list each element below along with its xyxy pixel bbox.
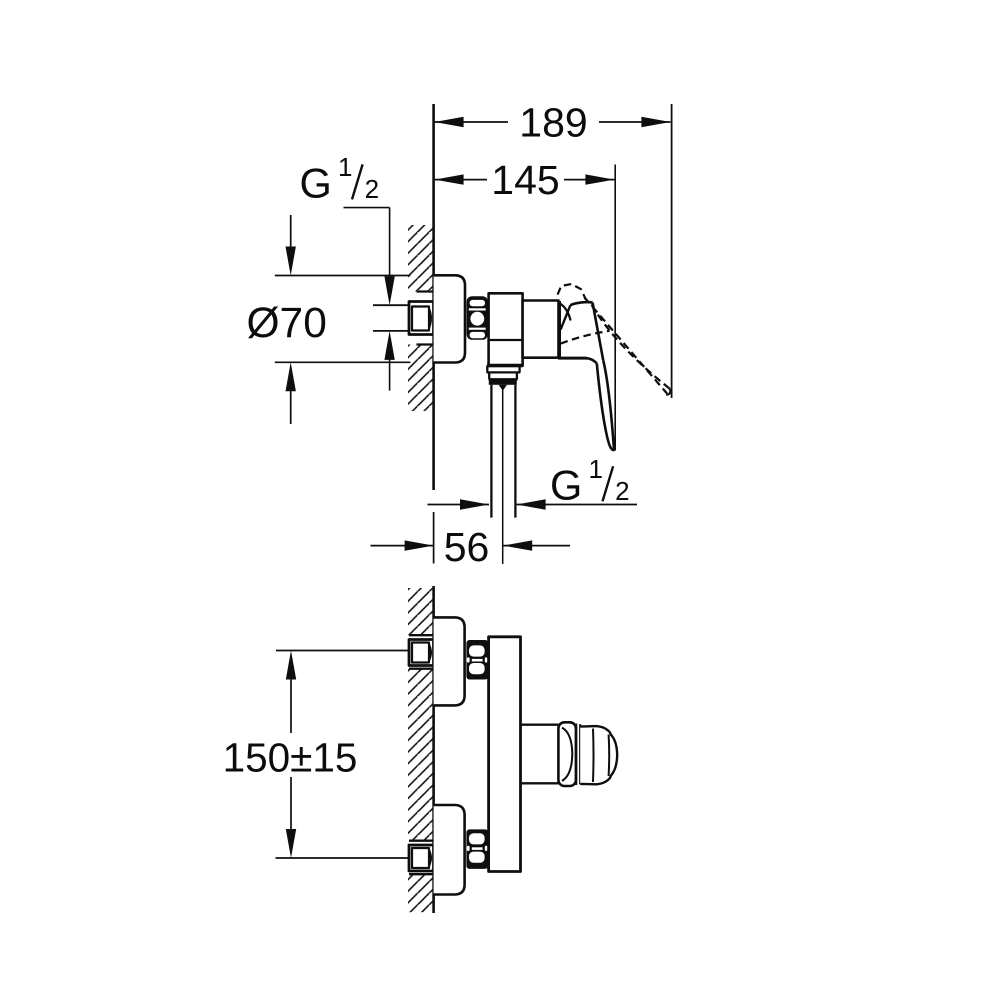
dim 189 line <box>435 121 671 123</box>
svg-text:2: 2 <box>615 476 629 506</box>
lower square nut chamfer arc <box>429 850 431 866</box>
dim 145 left arrow <box>435 174 464 184</box>
label G1/2 top leader vertical upper + arrow <box>389 208 391 280</box>
dim D70 lower arrow line <box>290 391 292 424</box>
dome arc <box>560 303 571 320</box>
dim 150 lower extension line <box>276 857 409 859</box>
wall hatching band 2 <box>408 669 434 841</box>
dim 145 extension line <box>614 165 616 451</box>
outlet step 1 <box>487 366 521 373</box>
escutcheon (wall rosette) side view <box>434 275 465 362</box>
spout bottom line <box>521 782 559 784</box>
svg-text:G: G <box>550 461 582 508</box>
handle neck left edge <box>561 305 571 329</box>
svg-text:Ø70: Ø70 <box>247 300 327 347</box>
label G1/2 mid: fraction slash <box>603 466 614 501</box>
G1/2 inlet tick lower <box>373 330 409 332</box>
knob cap mid line <box>592 729 595 782</box>
label G1/2 top leader vertical lower + arrow <box>389 356 391 391</box>
knob flange <box>558 722 576 786</box>
lower square union nut <box>409 845 434 871</box>
dashed lever tip arc <box>666 389 670 395</box>
label G1/2 top: fraction slash <box>352 164 363 199</box>
dim 150 down arrow <box>286 829 296 858</box>
svg-text:150±15: 150±15 <box>223 735 358 781</box>
hose drop tip <box>499 385 507 391</box>
dim 189 right arrow <box>641 117 670 127</box>
dim 150 upper extension line <box>276 650 409 652</box>
handle lever right edge with tip <box>603 360 614 450</box>
knob cap face line <box>608 735 611 776</box>
wall line bottom figure <box>432 586 435 913</box>
dim 145 right arrow <box>585 174 614 184</box>
lower wall stub above nut <box>409 840 435 842</box>
hose pipe center line <box>502 389 504 564</box>
cartridge cap seam <box>558 301 561 358</box>
label G1/2 mid dim line right <box>517 504 637 506</box>
wall hatching band 1 <box>408 588 434 635</box>
square union nut chamfer arc <box>429 309 431 329</box>
knob cap outline <box>580 726 617 784</box>
dim 189 right extension line <box>671 104 673 398</box>
knob band line 1 <box>575 724 577 786</box>
lower wall stub below nut <box>409 873 435 875</box>
dashed raised lever edge 2 <box>592 305 670 389</box>
knob band line 2 <box>579 724 581 784</box>
svg-text:189: 189 <box>519 100 587 146</box>
dim D70 lower tick <box>275 361 411 363</box>
upper wall stub below nut <box>409 668 435 670</box>
valve body block 1 thick bottom <box>487 364 523 367</box>
hex union nut bottom chamfer slot <box>470 332 485 338</box>
hex union ball <box>470 312 484 326</box>
square union nut inner face <box>412 307 429 331</box>
handle head top edge <box>570 302 592 305</box>
dim 150 up arrow <box>286 651 296 680</box>
wall hatching upper band <box>408 225 434 292</box>
wall opening stub above nut <box>417 290 435 292</box>
upper square union nut <box>409 640 434 666</box>
dim 56 wall extension segment <box>433 512 435 564</box>
knob flange inner arc <box>562 728 572 781</box>
dim 56 line left <box>371 545 434 547</box>
handle head right edge <box>593 303 604 361</box>
label G1/2 top leader horizontal <box>344 207 390 209</box>
hose nut black band <box>489 380 517 385</box>
outlet step 2 <box>489 372 518 379</box>
hex union nut lower sliver <box>469 328 486 330</box>
svg-text:145: 145 <box>491 157 559 203</box>
valve body block 1 <box>489 293 523 366</box>
dim D70 upper tick <box>275 275 411 277</box>
wall opening stub below nut <box>417 343 435 345</box>
dim 150 text <box>220 733 360 777</box>
svg-text:1: 1 <box>338 152 352 182</box>
svg-text:2: 2 <box>365 174 379 204</box>
handle underside junction <box>586 358 597 363</box>
hose pipe right edge <box>514 385 516 518</box>
square union nut behind wall <box>409 302 434 335</box>
wall line <box>432 104 435 490</box>
lower escutcheon front <box>434 805 465 895</box>
hose pipe left edge <box>490 385 492 518</box>
hex union nut top chamfer slot <box>470 300 485 306</box>
dim 56 line right <box>503 545 570 547</box>
handle lever left edge <box>597 363 612 448</box>
wall hatching lower band <box>408 345 434 412</box>
body plate front <box>489 637 521 872</box>
dashed handle bottom curve <box>561 331 610 344</box>
hex union nut upper sliver <box>469 308 486 310</box>
hex union nut body <box>467 296 488 340</box>
lower square union nut inner <box>412 848 429 868</box>
svg-text:G: G <box>300 159 332 206</box>
upper hex union nut (front) <box>466 640 488 680</box>
dashed raised lever edge 1 <box>585 298 668 394</box>
body bottom line under dome <box>558 357 587 360</box>
dashed handle raised knob outline <box>558 284 586 299</box>
dim 56 text <box>438 523 495 567</box>
upper escutcheon front <box>434 617 465 705</box>
valve body block 1 inner line <box>489 339 523 341</box>
svg-text:1: 1 <box>589 454 603 484</box>
upper square union nut inner <box>412 643 429 663</box>
label G1/2 mid dim line left <box>428 504 490 506</box>
dim 145 line <box>435 179 615 181</box>
svg-text:56: 56 <box>444 524 490 570</box>
wall hatching band 3 <box>408 874 434 912</box>
dim D70 upper arrow line <box>290 215 292 248</box>
valve body block 2 <box>523 301 559 358</box>
dim 150 vertical line <box>290 678 292 830</box>
upper square nut chamfer arc <box>429 645 431 661</box>
G1/2 inlet tick upper <box>373 304 409 306</box>
dim 189 left arrow <box>435 117 464 127</box>
lower hex union nut (front) <box>466 829 488 869</box>
upper wall stub above nut <box>409 634 435 636</box>
spout top line <box>521 724 559 726</box>
